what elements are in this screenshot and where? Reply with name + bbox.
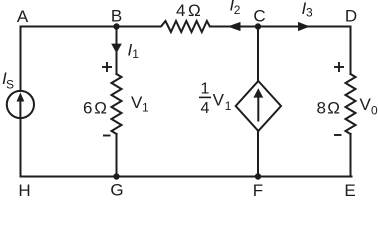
svg-text:0: 0 — [371, 104, 378, 118]
svg-text:Ω: Ω — [94, 99, 107, 118]
svg-text:1: 1 — [225, 99, 232, 113]
svg-text:H: H — [18, 181, 30, 196]
svg-text:6: 6 — [83, 99, 92, 118]
svg-text:8: 8 — [317, 99, 326, 118]
svg-text:Ω: Ω — [188, 1, 201, 20]
svg-text:4: 4 — [201, 100, 210, 117]
svg-text:V: V — [360, 95, 372, 114]
svg-text:1: 1 — [201, 80, 210, 97]
svg-text:Ω: Ω — [327, 99, 340, 118]
svg-text:D: D — [345, 7, 357, 26]
svg-text:4: 4 — [176, 1, 185, 20]
svg-text:1: 1 — [142, 101, 149, 115]
svg-text:1: 1 — [132, 47, 139, 61]
svg-text:B: B — [111, 7, 122, 26]
svg-text:V: V — [213, 91, 225, 110]
svg-text:E: E — [344, 181, 355, 196]
svg-text:C: C — [253, 7, 265, 26]
svg-text:A: A — [17, 7, 29, 26]
svg-text:3: 3 — [306, 6, 313, 20]
svg-text:G: G — [110, 181, 123, 197]
svg-text:2: 2 — [234, 3, 241, 17]
svg-text:F: F — [253, 181, 263, 196]
svg-text:S: S — [6, 78, 14, 92]
